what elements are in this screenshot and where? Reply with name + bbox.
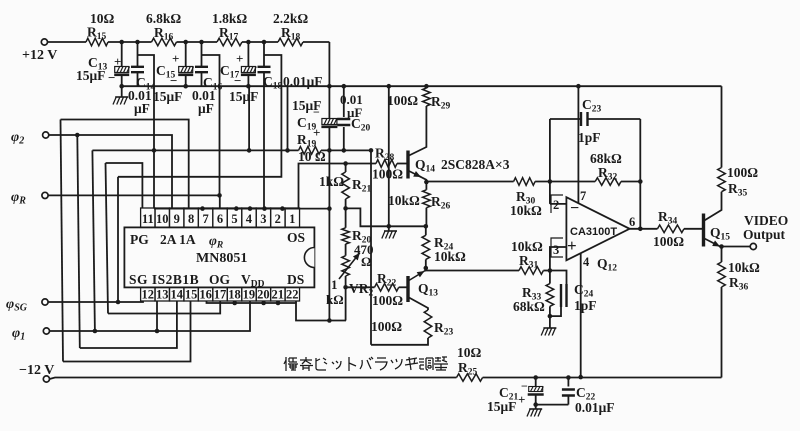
svg-text:Output: Output (743, 227, 786, 242)
terminal phi1 (12, 326, 50, 343)
svg-text:1: 1 (289, 212, 295, 226)
svg-text:18: 18 (228, 288, 241, 302)
node output (638, 227, 643, 232)
wire tap stage3 (118, 55, 281, 177)
wire C21-C22 bottom (536, 404, 569, 406)
svg-text:68kΩ: 68kΩ (513, 299, 545, 314)
wire tap stage1 (138, 55, 155, 209)
IC label 2A 1A (160, 232, 196, 247)
node fb-R30R32 (548, 179, 553, 184)
IC U1 MN8051 (124, 208, 314, 302)
variable resistor VR2 (326, 244, 374, 307)
resistor R26 (388, 182, 451, 226)
resistor R30 (510, 178, 542, 218)
node x329-bottom (327, 318, 332, 323)
wire row pin14 (80, 301, 177, 348)
terminal phiSG (6, 297, 48, 314)
node x329-pinbus (327, 206, 332, 211)
svg-text:SG IS2B1B: SG IS2B1B (129, 272, 199, 287)
node rail-C15 (183, 40, 188, 45)
ground C21 (527, 402, 542, 416)
node pinbus p4 (248, 206, 253, 211)
svg-text:14: 14 (170, 288, 183, 302)
resistor R31 (511, 239, 543, 274)
node gnd-row226 (387, 224, 392, 229)
node VR2 bottom (343, 285, 348, 290)
text odd-even bit adjustment (JP) (284, 357, 448, 371)
svg-text:1: 1 (331, 277, 338, 292)
svg-text:17: 17 (214, 288, 227, 302)
capacitor C20 (337, 92, 370, 134)
wire video out (722, 246, 751, 248)
terminal -12V (19, 363, 54, 382)
wire bus-to-R19 (285, 86, 290, 153)
svg-text:PG: PG (130, 232, 149, 247)
svg-text:CA3100T: CA3100T (570, 226, 617, 238)
node phiSG-V5 (116, 300, 121, 305)
resistor R17 (212, 11, 247, 46)
wire VR2 chain bottom (345, 276, 347, 321)
svg-text:7: 7 (202, 212, 208, 226)
svg-text:1kΩ: 1kΩ (319, 174, 344, 189)
wire bottom pin bus (207, 301, 347, 321)
svg-text:11: 11 (142, 212, 154, 226)
node Q14 emitter (424, 180, 429, 185)
wire nest vertical V1 (61, 120, 64, 362)
svg-text:+: + (114, 54, 121, 69)
node phi1-V3 (93, 329, 98, 334)
resistor R33 (513, 271, 554, 317)
wire row pin17 (108, 301, 220, 314)
wire phi2 row (49, 135, 172, 208)
resistor R35 (718, 165, 759, 199)
node pinbus p2 (280, 206, 285, 211)
ground R33 (541, 316, 556, 335)
wire nest row C (pin11) (106, 163, 143, 208)
svg-text:10kΩ: 10kΩ (510, 203, 542, 218)
resistor R22 (372, 271, 403, 308)
op-amp pin4 wire (581, 254, 590, 378)
wire nest vertical V5 (117, 177, 119, 302)
resistor R23 (371, 310, 454, 345)
wire top to R35 (721, 86, 723, 167)
resistor R20 (342, 208, 374, 269)
capacitor C21 (487, 378, 544, 415)
wire +12V bus (122, 85, 722, 87)
IC label PG (130, 232, 149, 247)
svg-text:2: 2 (275, 212, 281, 226)
wire pin-top bus (154, 208, 329, 210)
wire tap stage2 (202, 55, 220, 195)
wire C20 column (343, 86, 345, 150)
svg-text:1pF: 1pF (574, 298, 597, 313)
svg-text:10kΩ: 10kΩ (434, 249, 466, 264)
wire C17 column down (248, 86, 250, 150)
resistor R18 (273, 11, 308, 46)
node botbus p20 (261, 301, 266, 306)
wire nest vertical V2 (77, 135, 80, 348)
node rail-C17 (246, 40, 251, 45)
resistor R21 (319, 164, 372, 209)
svg-text:2SC828A×3: 2SC828A×3 (441, 157, 510, 172)
svg-text:6.8kΩ: 6.8kΩ (146, 11, 181, 26)
terminal +12V (22, 39, 57, 63)
svg-text:22: 22 (286, 288, 299, 302)
wire -12V line (50, 378, 722, 380)
node botbus p18 (232, 301, 237, 306)
node R19-x370 (369, 148, 374, 153)
transistor Q15 (704, 192, 731, 247)
capacitor C23 (550, 97, 640, 145)
resistor R25 (457, 345, 483, 381)
svg-text:μF: μF (134, 101, 150, 116)
svg-text:+: + (567, 236, 577, 255)
resistor R15 (86, 11, 115, 46)
svg-text:100Ω: 100Ω (727, 165, 758, 180)
svg-text:100Ω: 100Ω (387, 93, 418, 108)
svg-text:+: + (518, 392, 525, 407)
wire R21-to-row226 (346, 208, 426, 226)
svg-text:100Ω: 100Ω (372, 167, 403, 182)
wire Q13 return (370, 150, 372, 344)
node phiR-tap2 (217, 193, 222, 198)
wire pin21 lead (277, 301, 279, 303)
node rail-C14 (135, 40, 140, 45)
transistor Q14 (408, 106, 510, 182)
IC label phiR pin (209, 233, 223, 251)
terminal VIDEO output (743, 213, 788, 250)
svg-text:0.01μF: 0.01μF (575, 400, 615, 415)
capacitor C14 (128, 42, 156, 116)
IC label OG (209, 272, 231, 287)
pin3 box mark (551, 238, 563, 257)
svg-text:μF: μF (198, 101, 214, 116)
wire phiR row (48, 195, 220, 208)
node R29 top (424, 84, 429, 89)
node rail-C13 (119, 40, 124, 45)
node phi2 junction (75, 133, 80, 138)
svg-text:+: + (313, 125, 320, 140)
node pinbus p7 (200, 206, 205, 211)
svg-text:15μF: 15μF (153, 89, 182, 104)
svg-text:100Ω: 100Ω (372, 293, 403, 308)
wire nest row A (pin8) (61, 120, 189, 209)
node R21 top (343, 161, 348, 166)
svg-text:−12 V: −12 V (19, 363, 54, 378)
svg-text:4: 4 (246, 212, 253, 226)
resistor R16 (146, 11, 181, 46)
node C20-R19line (342, 148, 347, 153)
node Q15 emitter (719, 244, 724, 249)
node pin4 bottom (578, 375, 583, 380)
svg-text:21: 21 (272, 288, 285, 302)
node rowB-C17col (247, 148, 252, 153)
node C22 top (566, 375, 571, 380)
wire pin18 lead (234, 301, 236, 303)
svg-text:kΩ: kΩ (326, 292, 344, 307)
svg-text:−: − (313, 105, 320, 119)
node bus-329 (327, 84, 332, 89)
wire nest vertical V4 (106, 163, 109, 314)
node C19-R19line (327, 148, 332, 153)
op-amp U2 CA3100T (566, 197, 629, 260)
svg-text:10kΩ: 10kΩ (388, 193, 420, 208)
svg-text:10: 10 (156, 212, 169, 226)
node bus-C17 (246, 84, 251, 89)
IC label DS (287, 272, 304, 287)
wire opamp out (629, 215, 658, 229)
node C20-bus (342, 84, 347, 89)
svg-text:13: 13 (156, 288, 169, 302)
svg-text:+: + (172, 51, 179, 66)
svg-text:OS: OS (287, 230, 305, 245)
wire gnd-column x389 (388, 86, 390, 231)
svg-text:1pF: 1pF (578, 130, 601, 145)
wire R19 row (249, 149, 371, 151)
svg-text:15μF: 15μF (487, 399, 516, 414)
wire pin20 lead (263, 301, 265, 303)
svg-text:−: − (521, 379, 528, 393)
node rail-C16 (199, 40, 204, 45)
svg-text:Ω: Ω (361, 254, 371, 269)
IC label SG IS 2B 1B (129, 272, 199, 287)
IC label VDD (241, 272, 265, 290)
wire row pin15 (63, 301, 191, 362)
svg-text:+: + (236, 51, 243, 66)
svg-text:15μF: 15μF (76, 68, 105, 83)
terminal phiR (11, 190, 48, 207)
svg-text:4: 4 (583, 255, 590, 269)
capacitor C18 (258, 42, 323, 92)
wire fb right vertical (639, 119, 641, 229)
wire C18 column down (263, 86, 265, 208)
svg-text:100Ω: 100Ω (653, 234, 684, 249)
wire Q14emitter row (426, 181, 640, 184)
capacitor C22 (562, 378, 615, 416)
node rail-C18 (262, 40, 267, 45)
wire pin2 vertical (549, 119, 551, 204)
svg-text:VIDEO: VIDEO (744, 213, 788, 228)
svg-text:15: 15 (185, 288, 198, 302)
wire +12V rail (48, 41, 330, 43)
terminal phi2 (11, 130, 49, 147)
svg-text:−: − (108, 70, 115, 85)
node C21 top (533, 375, 538, 380)
wire long vertical x329 (328, 150, 330, 320)
op-amp pin7 wire (576, 84, 586, 204)
wire nest row B (92, 149, 249, 151)
pin2 box mark (551, 195, 563, 213)
IC label MN8051 (196, 251, 247, 266)
svg-text:2A 1A: 2A 1A (160, 232, 196, 247)
wire rail-end corner (328, 42, 330, 119)
node pinbus p3 (262, 206, 267, 211)
resistor R29 (387, 86, 451, 111)
svg-text:3: 3 (260, 212, 266, 226)
resistor R34 (653, 209, 702, 249)
svg-text:16: 16 (199, 288, 212, 302)
wire R31 row (426, 268, 550, 271)
resistor R24 (422, 226, 466, 268)
IC label OS (287, 230, 305, 245)
capacitor C19 (292, 98, 337, 150)
capacitor C24 (550, 271, 597, 317)
label Q12 (597, 256, 617, 274)
node rowB tap1 (152, 148, 157, 153)
resistor R19 (297, 132, 326, 164)
svg-text:3: 3 (553, 243, 559, 257)
svg-text:OG: OG (209, 272, 231, 287)
node botbus p21 (276, 301, 281, 306)
svg-text:5: 5 (231, 212, 237, 226)
wire phiSG row (pin12) (48, 301, 143, 302)
node R33 bottom (548, 314, 553, 319)
svg-text:1.8kΩ: 1.8kΩ (212, 11, 247, 26)
svg-text:20: 20 (257, 288, 270, 302)
svg-text:MN8051: MN8051 (196, 251, 247, 266)
svg-text:6: 6 (629, 215, 635, 229)
node gnd-bus (387, 84, 392, 89)
svg-text:68kΩ: 68kΩ (590, 151, 622, 166)
svg-text:10Ω: 10Ω (457, 345, 482, 360)
svg-text:7: 7 (580, 189, 586, 203)
capacitor C17 (220, 42, 258, 104)
wire R22 row (346, 286, 408, 288)
node bus-C15 (183, 84, 188, 89)
svg-text:10kΩ: 10kΩ (511, 239, 543, 254)
ground row226 (382, 231, 397, 239)
node pinbus p5 (234, 206, 239, 211)
svg-text:2: 2 (553, 198, 559, 212)
node pin13-row (155, 329, 160, 334)
wire pin22 lead (295, 301, 297, 303)
capacitor C15 (153, 42, 194, 104)
resistor R28 (372, 146, 403, 182)
node R21 bottom tee (343, 206, 348, 211)
wire pin3 stub (550, 247, 567, 271)
node fb right (638, 179, 643, 184)
svg-text:19: 19 (243, 288, 256, 302)
resistor R32 (590, 151, 622, 185)
svg-text:+12 V: +12 V (22, 48, 57, 63)
wire R28-Q14 base (407, 163, 409, 165)
op-amp pin2 wire (550, 203, 567, 205)
ground bus-left (113, 84, 128, 105)
svg-text:6: 6 (217, 212, 223, 226)
svg-text:9: 9 (174, 212, 180, 226)
capacitor C13 (76, 42, 130, 86)
svg-text:DS: DS (287, 272, 304, 287)
wire phi1 row (pin19) (50, 301, 251, 331)
node R26-R24 (424, 224, 429, 229)
capacitor C16 (192, 42, 223, 116)
svg-text:12: 12 (142, 288, 155, 302)
node R24-Q13 (424, 266, 429, 271)
svg-text:8: 8 (188, 212, 194, 226)
svg-text:2.2kΩ: 2.2kΩ (273, 11, 308, 26)
transistor Q13 (408, 268, 438, 310)
svg-text:15μF: 15μF (229, 89, 258, 104)
svg-text:100Ω: 100Ω (371, 319, 402, 334)
resistor R36 (718, 247, 760, 378)
node pin3 (548, 268, 553, 273)
svg-text:10kΩ: 10kΩ (728, 260, 760, 275)
wire nest vertical V3 (92, 150, 95, 331)
wire pin13 lead (156, 301, 158, 331)
wire OS row (299, 164, 409, 209)
